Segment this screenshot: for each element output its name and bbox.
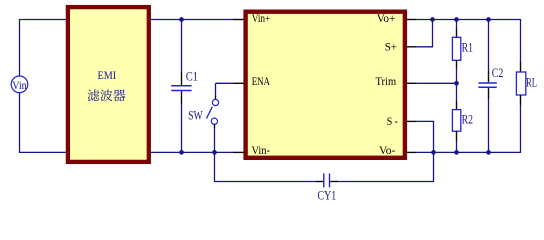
- svg-text:R1: R1: [462, 40, 473, 55]
- load resistor RL: [516, 62, 537, 105]
- pin stub Trim: [407, 82, 417, 84]
- wire CY1 to Vo- net: [338, 152, 433, 181]
- svg-text:Vin+: Vin+: [252, 13, 271, 25]
- pin stub Vin+ pin 1: [233, 19, 244, 21]
- EMI filter Chinese label (filter): [87, 89, 125, 101]
- svg-text:Vin: Vin: [12, 78, 27, 92]
- svg-text:EMI: EMI: [98, 68, 117, 82]
- node junction C2 bottom: [486, 150, 491, 155]
- node junction S- / Vo-: [431, 150, 436, 155]
- svg-text:S -: S -: [387, 116, 398, 128]
- wire top-left from Vin to EMI filter: [20, 20, 67, 77]
- capacitor C2: [478, 20, 503, 153]
- pin stub Vo-: [407, 151, 417, 153]
- wire Vo- rail to RL: [417, 105, 521, 152]
- wire Vo+ rail to RL: [417, 20, 521, 63]
- wire S+ up to Vo+ rail: [417, 20, 433, 47]
- pin stub S-: [407, 120, 417, 122]
- capacitor CY1: [316, 173, 339, 202]
- voltage source Vin: [11, 76, 28, 93]
- wire S- down to Vo- rail: [417, 121, 434, 152]
- wire Trim to divider: [417, 82, 457, 84]
- resistor R2: [452, 83, 473, 152]
- pin stub ENA pin 3: [233, 82, 244, 84]
- switch SW: [188, 83, 218, 152]
- capacitor C1: [171, 20, 198, 153]
- svg-text:Vin-: Vin-: [252, 145, 271, 157]
- node junction C2 top: [486, 17, 491, 22]
- svg-text:C2: C2: [492, 65, 504, 80]
- pin stub Vo+: [407, 19, 417, 21]
- DC-DC converter module U1: [246, 12, 405, 158]
- svg-text:S+: S+: [385, 42, 397, 54]
- svg-text:C1: C1: [186, 69, 198, 84]
- resistor R1: [452, 20, 473, 84]
- pin stub Vin- pin 2: [233, 151, 244, 153]
- pin stub S+: [407, 46, 417, 48]
- svg-text:RL: RL: [526, 75, 537, 90]
- node junction SW bottom: [212, 150, 217, 155]
- wire bottom-mid EMI to Vin- pin: [151, 151, 233, 153]
- node junction R2 bottom: [454, 150, 459, 155]
- node junction C1 top: [179, 17, 184, 22]
- svg-text:Vo+: Vo+: [377, 13, 396, 25]
- svg-text:ENA: ENA: [252, 76, 271, 88]
- wire top-mid EMI to Vin+ pin: [151, 19, 233, 21]
- node junction C1 bottom: [179, 150, 184, 155]
- EMI filter block: [68, 7, 149, 162]
- svg-text:Trim: Trim: [376, 76, 397, 88]
- node junction Trim tap: [454, 81, 459, 86]
- wire ENA from switch to pin: [216, 82, 233, 84]
- wire bottom-left from Vin to EMI filter: [20, 93, 67, 153]
- svg-text:R2: R2: [462, 112, 473, 127]
- node junction S+ / Vo+: [430, 17, 435, 22]
- svg-text:Vo-: Vo-: [379, 145, 395, 157]
- node junction R1 top: [454, 17, 459, 22]
- svg-text:CY1: CY1: [318, 187, 337, 202]
- svg-text:SW: SW: [188, 108, 203, 123]
- wire Vin- net down and across to CY1: [215, 152, 316, 181]
